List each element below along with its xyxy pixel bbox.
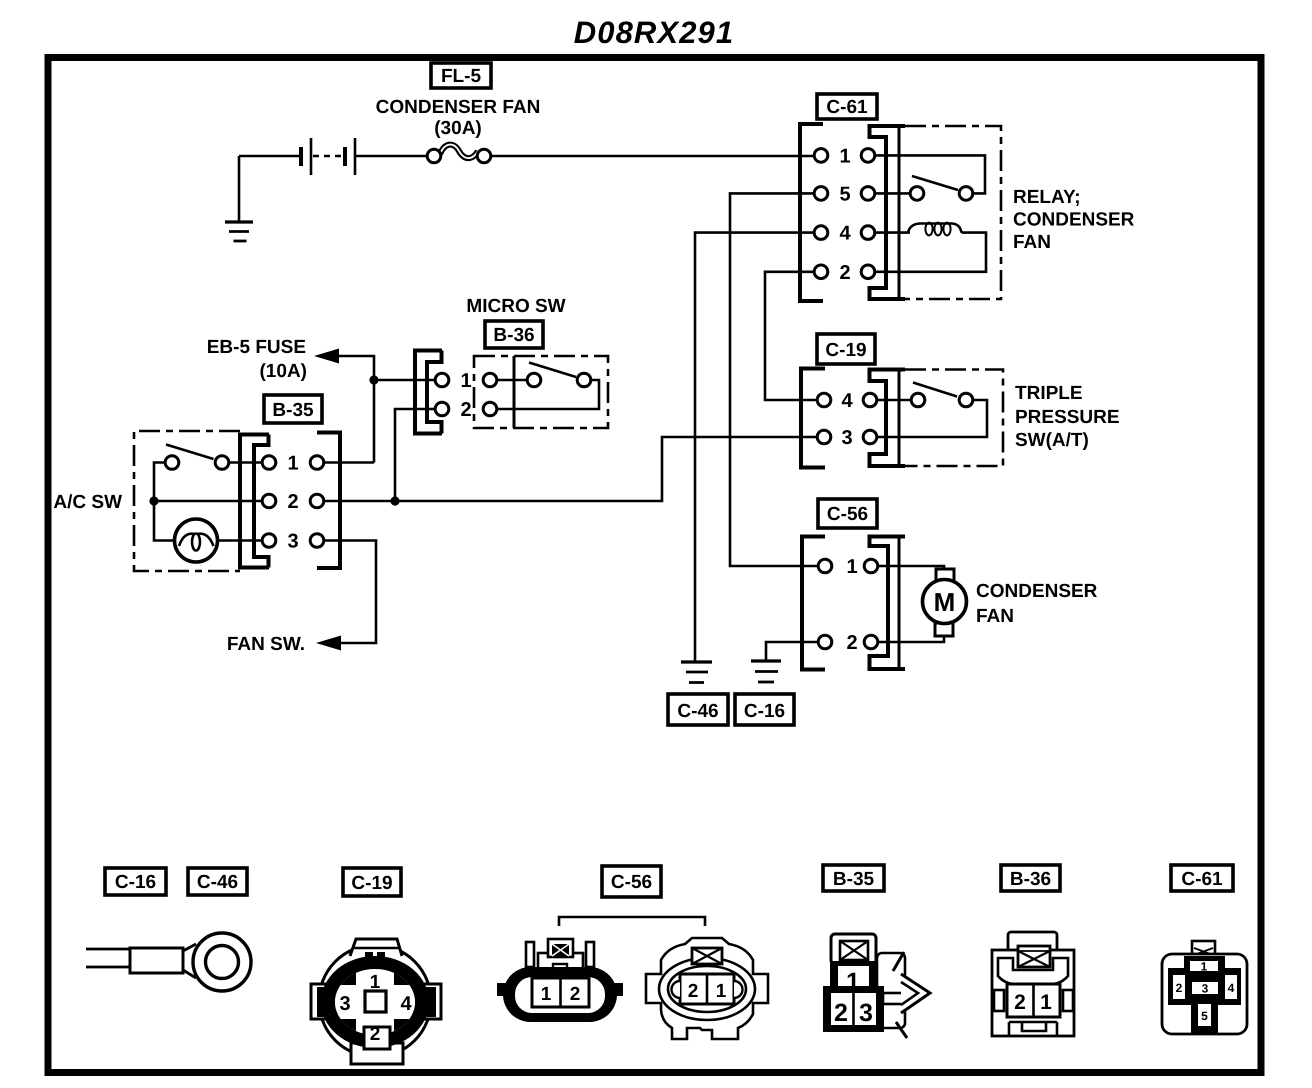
svg-text:1: 1 <box>1040 991 1052 1014</box>
wire A/C switch left leg <box>154 463 175 541</box>
svg-text:2: 2 <box>846 632 857 654</box>
svg-text:A/C SW: A/C SW <box>53 492 122 513</box>
wire fuse to C-61 pin1 <box>491 155 814 158</box>
C-19 pin 4 <box>817 390 877 412</box>
wire B-35 pin1 to EB-5 vertical <box>324 461 374 464</box>
wire pin1 to micro switch <box>497 379 527 382</box>
arrow to FAN SW <box>316 636 341 651</box>
wire lamp to pin3 <box>218 539 263 542</box>
svg-text:2: 2 <box>370 1024 381 1045</box>
connector B-35 right bracket <box>317 433 340 569</box>
connector C-19 left bracket <box>801 369 825 468</box>
connector label box B-35 <box>264 395 322 423</box>
svg-text:EB-5 FUSE: EB-5 FUSE <box>207 337 306 358</box>
svg-text:1: 1 <box>1201 960 1208 974</box>
connector C-19 right bracket <box>870 368 906 468</box>
micro switch housing line <box>513 356 516 428</box>
svg-text:3: 3 <box>841 427 852 449</box>
svg-text:RELAY;: RELAY; <box>1013 187 1081 208</box>
svg-text:C-46: C-46 <box>677 701 718 722</box>
triple pressure switch box (dash-dot) <box>905 370 1003 467</box>
svg-text:3: 3 <box>287 531 298 553</box>
svg-text:C-16: C-16 <box>744 701 785 722</box>
wire B-35 pin3 to FAN SW <box>324 541 376 644</box>
wire battery to ground <box>238 156 241 222</box>
lamp (A/C indicator) <box>175 519 218 562</box>
svg-text:(10A): (10A) <box>259 361 307 382</box>
svg-text:FAN: FAN <box>976 606 1014 627</box>
relay coil L1 <box>908 223 962 236</box>
battery B1 <box>301 138 355 175</box>
wire C-61 pin2 to C-19 pin4 <box>765 272 817 400</box>
svg-text:4: 4 <box>400 993 412 1015</box>
wire junction to B-36 pin1 <box>374 379 435 382</box>
svg-text:3: 3 <box>339 993 350 1015</box>
connector C-56 right bracket <box>870 535 906 671</box>
ground C-46 <box>681 662 712 683</box>
svg-text:1: 1 <box>846 556 857 578</box>
B-36 pin 1 <box>435 370 497 392</box>
arrow to EB-5 fuse <box>314 349 339 364</box>
connector label box C-56 <box>818 499 877 528</box>
B-35 pin 2 <box>262 491 324 513</box>
svg-text:C-19: C-19 <box>825 340 866 361</box>
svg-text:C-46: C-46 <box>197 872 238 893</box>
pressure switch contacts <box>911 383 973 407</box>
svg-text:B-35: B-35 <box>833 869 875 890</box>
connector B-36 bracket <box>415 351 442 434</box>
connector C-61 left bracket <box>800 124 823 301</box>
B-35 pin 1 <box>262 453 324 475</box>
svg-text:3: 3 <box>1202 982 1209 996</box>
A/C switch contacts <box>165 445 229 470</box>
bottom label box C-19 <box>343 868 401 896</box>
svg-text:2: 2 <box>287 491 298 513</box>
node A/C junction <box>149 496 158 505</box>
svg-text:2: 2 <box>1014 991 1026 1014</box>
C-61 pin 5 <box>814 184 875 206</box>
relay box (dash-dot) <box>905 126 1001 299</box>
svg-text:TRIPLE: TRIPLE <box>1015 383 1083 404</box>
svg-text:M: M <box>934 587 956 617</box>
wire coil to pin2 <box>875 233 986 272</box>
wire A/C switch to pin1 <box>229 461 262 464</box>
svg-text:C-16: C-16 <box>115 872 156 893</box>
svg-text:1: 1 <box>716 981 727 1002</box>
C-56 pin 1 <box>818 556 878 578</box>
svg-text:1: 1 <box>370 972 381 993</box>
motor M1 condenser fan <box>923 569 967 636</box>
wire C-56 pin2 to ground C-16 <box>766 642 818 661</box>
svg-text:CONDENSER: CONDENSER <box>1013 210 1135 231</box>
ground label box C-46 <box>668 694 728 725</box>
connector B-35 left bracket <box>240 435 269 568</box>
svg-text:(30A): (30A) <box>434 118 482 139</box>
svg-text:1: 1 <box>287 453 298 475</box>
connector C-56 left bracket <box>802 537 825 670</box>
label CONDENSER FAN (30A) <box>376 97 541 139</box>
bottom label box C-56 <box>602 866 661 897</box>
micro switch contacts <box>527 363 591 387</box>
svg-text:CONDENSER FAN: CONDENSER FAN <box>376 97 541 118</box>
svg-text:5: 5 <box>1201 1009 1208 1023</box>
connector face B-36 <box>992 932 1074 1036</box>
svg-text:MICRO SW: MICRO SW <box>466 296 565 317</box>
C-61 pin 1 <box>814 146 875 168</box>
svg-text:PRESSURE: PRESSURE <box>1015 407 1120 428</box>
svg-text:4: 4 <box>841 390 853 412</box>
wire pin4 to coil <box>875 231 910 234</box>
fusible link label box FL-5 <box>431 63 491 88</box>
connector face C-56 male <box>497 939 623 1022</box>
svg-text:5: 5 <box>839 184 850 206</box>
connector face C-56 female <box>646 938 768 1039</box>
bottom label box B-36 <box>1001 865 1060 891</box>
node junction B-35 pin2 line <box>390 496 399 505</box>
C-61 pin 4 <box>814 223 875 245</box>
wire pin2 to motor <box>878 634 944 642</box>
svg-text:B-36: B-36 <box>1010 869 1051 890</box>
ring terminal C-16/C-46 <box>86 933 251 991</box>
svg-text:2: 2 <box>570 984 581 1005</box>
svg-text:B-36: B-36 <box>493 325 534 346</box>
C-56 pin 2 <box>818 632 878 654</box>
connector face C-61 <box>1162 941 1247 1034</box>
wire pin5 to switch <box>875 192 910 195</box>
svg-text:C-61: C-61 <box>1181 869 1223 890</box>
bottom label box C-46 <box>188 868 247 895</box>
svg-text:4: 4 <box>1228 981 1235 995</box>
svg-text:4: 4 <box>839 223 851 245</box>
svg-text:1: 1 <box>460 370 471 392</box>
label CONDENSER FAN (motor) <box>976 581 1098 627</box>
wire C-61 pin4 to ground C-46 <box>695 233 814 662</box>
svg-text:2: 2 <box>688 981 699 1002</box>
B-35 pin 3 <box>262 531 324 553</box>
C-61 pin 2 <box>814 262 875 284</box>
fuse FL-5 symbol <box>427 145 491 163</box>
svg-text:2: 2 <box>1176 981 1183 995</box>
wire pin4 to pressure switch <box>877 399 911 402</box>
label EB-5 FUSE (10A) <box>207 337 307 382</box>
wire micro switch to pin2 <box>497 380 599 409</box>
bottom label box C-61 <box>1171 865 1233 891</box>
wire EB-5 arrow to junction <box>339 356 374 463</box>
connector face B-35 <box>823 934 930 1038</box>
wire battery left <box>239 155 301 158</box>
svg-text:2: 2 <box>460 399 471 421</box>
svg-text:C-56: C-56 <box>611 872 652 893</box>
wire junction to pin2 <box>154 500 262 503</box>
bracket over C-56 connector pair <box>559 917 705 926</box>
svg-text:C-56: C-56 <box>827 504 868 525</box>
bottom label box C-16 <box>105 868 166 895</box>
svg-text:1: 1 <box>541 984 552 1005</box>
svg-text:B-35: B-35 <box>272 400 314 421</box>
connector label box B-36 <box>485 321 543 348</box>
label TRIPLE PRESSURE SW(A/T) <box>1015 383 1120 451</box>
svg-text:C-61: C-61 <box>826 97 868 118</box>
svg-text:C-19: C-19 <box>351 873 392 894</box>
svg-text:SW(A/T): SW(A/T) <box>1015 430 1089 451</box>
svg-text:FL-5: FL-5 <box>441 66 482 87</box>
svg-text:3: 3 <box>859 999 873 1027</box>
connector label box C-19 <box>817 334 875 364</box>
svg-text:1: 1 <box>839 146 850 168</box>
A/C switch box (dash-dot) <box>134 431 240 571</box>
wire switch to pin3 <box>877 400 987 437</box>
bottom label box B-35 <box>823 865 884 891</box>
wire C-61 pin5 to C-56 pin1 <box>730 193 818 566</box>
label RELAY; CONDENSER FAN <box>1013 187 1135 253</box>
C-19 pin 3 <box>817 427 877 449</box>
micro switch box (dash-dot) <box>474 356 608 428</box>
node EB-5 junction <box>369 375 378 384</box>
svg-text:2: 2 <box>834 999 848 1027</box>
connector label box C-61 <box>817 94 877 119</box>
svg-text:FAN: FAN <box>1013 232 1051 253</box>
ground (battery) <box>225 222 253 241</box>
wire battery to fuse <box>355 155 427 158</box>
B-36 pin 2 <box>435 399 497 421</box>
svg-text:1: 1 <box>846 968 860 996</box>
wire C-19 pin3 to B-35 pin2 <box>324 437 817 501</box>
connector face C-19 <box>311 939 441 1064</box>
relay wiring pin1 to switch <box>875 155 985 193</box>
ground C-16 <box>751 661 781 682</box>
wire pin1 to motor <box>878 566 944 570</box>
svg-text:FAN SW.: FAN SW. <box>227 634 305 655</box>
relay switch contacts <box>910 176 973 200</box>
svg-text:D08RX291: D08RX291 <box>574 15 734 50</box>
wire B-36 pin2 down to junction <box>395 409 435 501</box>
ground label box C-16 <box>735 694 794 725</box>
svg-text:2: 2 <box>839 262 850 284</box>
svg-text:CONDENSER: CONDENSER <box>976 581 1098 602</box>
connector C-61 right bracket <box>870 124 906 301</box>
